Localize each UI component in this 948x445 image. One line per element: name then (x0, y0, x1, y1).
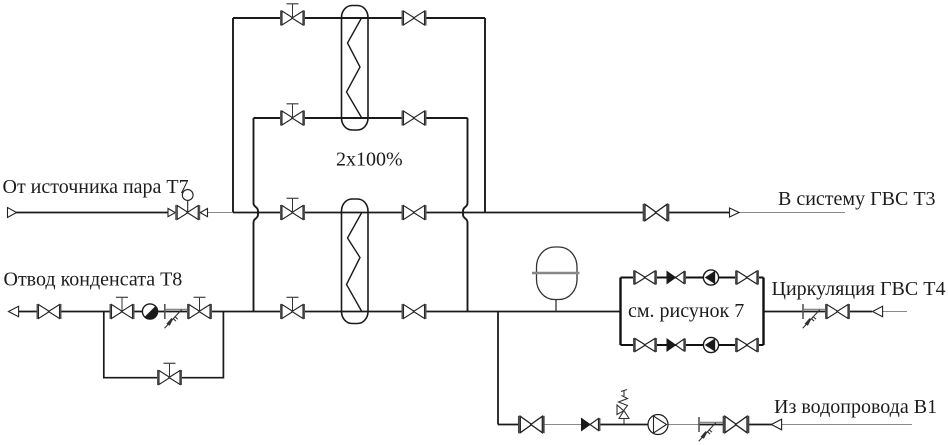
outlet arrow T3 (730, 208, 740, 217)
valve condensate L4 right (402, 304, 425, 319)
label 2x100% (336, 149, 403, 171)
reducer left of control valve (168, 209, 175, 217)
valve box bottom-left (634, 338, 656, 352)
label T3 (778, 188, 936, 210)
inlet arrow T7 (8, 208, 17, 218)
pipe: condensate main T8 (L4) (19, 311, 621, 313)
valve steam main right (402, 205, 425, 220)
valve T4 outlet (826, 304, 849, 319)
svg-text:см. рисунок 7: см. рисунок 7 (628, 300, 744, 322)
pipe: steam main through HX2 (233, 212, 643, 214)
check valve box top (667, 271, 685, 284)
svg-text:Циркуляция ГВС Т4: Циркуляция ГВС Т4 (772, 278, 946, 300)
pump B1 (648, 415, 668, 435)
pipe: downcomer V3 with jump over steam main (463, 118, 468, 312)
label T8 (4, 269, 183, 291)
svg-text:В систему ГВС Т3: В систему ГВС Т3 (778, 188, 936, 210)
reducer right of control valve (200, 209, 207, 217)
valve box top-left (634, 271, 656, 285)
inlet arrow T4 (873, 306, 883, 316)
flange and drain spool on B1 line (699, 417, 724, 441)
valve T3 outlet (644, 204, 669, 221)
label see figure 7 (628, 300, 744, 322)
pump box outline (см. рисунок 7) (621, 278, 764, 346)
pipe: downcomer V4 from L1 to steam main (484, 18, 486, 213)
pipe: steam main inlet T7 (16, 212, 168, 214)
pipe: drop V5 to water inlet line (497, 312, 499, 425)
pipe: HX1 outlet header (L2) (254, 117, 468, 119)
valve T8 outlet (37, 304, 60, 319)
svg-text:От источника пара Т7: От источника пара Т7 (3, 176, 189, 198)
pipe: B1 thin continuation (782, 424, 912, 426)
gate valve after trap (188, 297, 211, 319)
gate valve steam main (281, 198, 304, 220)
pipe: T4 circulation line from pump box (764, 311, 827, 313)
flange and drain spool on T4 line (803, 304, 827, 328)
gate valve L1 (281, 4, 304, 26)
pipe: T4 thin continuation (883, 311, 907, 313)
pump box bottom (703, 337, 718, 352)
safety valve B1 (617, 390, 629, 425)
control valve with actuator on steam main (176, 190, 199, 220)
pipe: B1 water line (498, 424, 518, 426)
svg-text:Отвод конденсата Т8: Отвод конденсата Т8 (4, 269, 183, 291)
pipe: T4 outlet to arrow (849, 311, 873, 313)
valve L2 right (402, 111, 425, 126)
pump box top (703, 270, 718, 285)
heat exchanger HX2 (342, 199, 369, 324)
pipe: top header T7 to HX1 (L1) (233, 17, 485, 19)
bypass gate valve (158, 363, 181, 385)
pipe: steam main after control valve (thin) (208, 212, 234, 214)
label T4 (772, 278, 946, 300)
pipe: B1 segment past check valve (600, 424, 668, 426)
svg-text:Из водопровода В1: Из водопровода В1 (774, 396, 937, 418)
pipe: trap bypass loop (104, 312, 224, 378)
pipe: B1 spool segment (699, 424, 724, 426)
gate valve before trap (110, 297, 133, 319)
pipe: B1 outlet to arrow (749, 424, 772, 426)
pipe: B1 thin segment 2 (668, 424, 699, 426)
pipe: T3 outlet line (669, 212, 730, 214)
pipe: T3 thin continuation (740, 212, 846, 214)
pipe: B1 thin segment (545, 424, 583, 426)
valve B1 outlet (724, 416, 749, 433)
valve L1 right (402, 11, 425, 26)
inlet arrow B1 (771, 419, 781, 430)
heat exchanger HX1 (342, 6, 369, 131)
label T7 (3, 176, 189, 198)
valve box bottom-right (736, 338, 758, 352)
valve box top-right (736, 271, 758, 285)
outlet arrow T8 (9, 306, 19, 316)
gate valve L2 (281, 104, 304, 126)
steam trap (142, 304, 157, 319)
check valve box bottom (667, 339, 685, 352)
check valve B1 (582, 418, 600, 431)
pipe: downcomer V2 with jump over steam main (254, 118, 259, 312)
gate valve condensate L4 (281, 297, 304, 319)
pipe: riser V1 steam main to L1 (232, 18, 234, 213)
svg-text:2x100%: 2x100% (336, 149, 403, 171)
flange and drain spool on condensate line (165, 304, 189, 328)
valve B1 first (519, 416, 544, 433)
label B1 (774, 396, 937, 418)
expansion tank (532, 247, 580, 312)
